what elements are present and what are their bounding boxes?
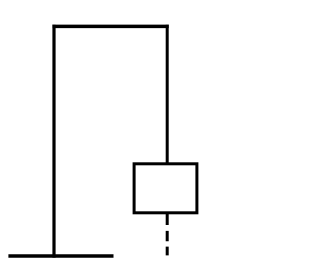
wire: top horizontal run — [52, 25, 168, 29]
dashed line (continuation below box) — [166, 212, 169, 255]
box (component block) — [134, 164, 197, 213]
wire: right vertical drop to box — [166, 25, 169, 166]
ground bar (bottom horizontal baseline) — [8, 254, 113, 258]
wire: left vertical riser — [52, 25, 55, 258]
